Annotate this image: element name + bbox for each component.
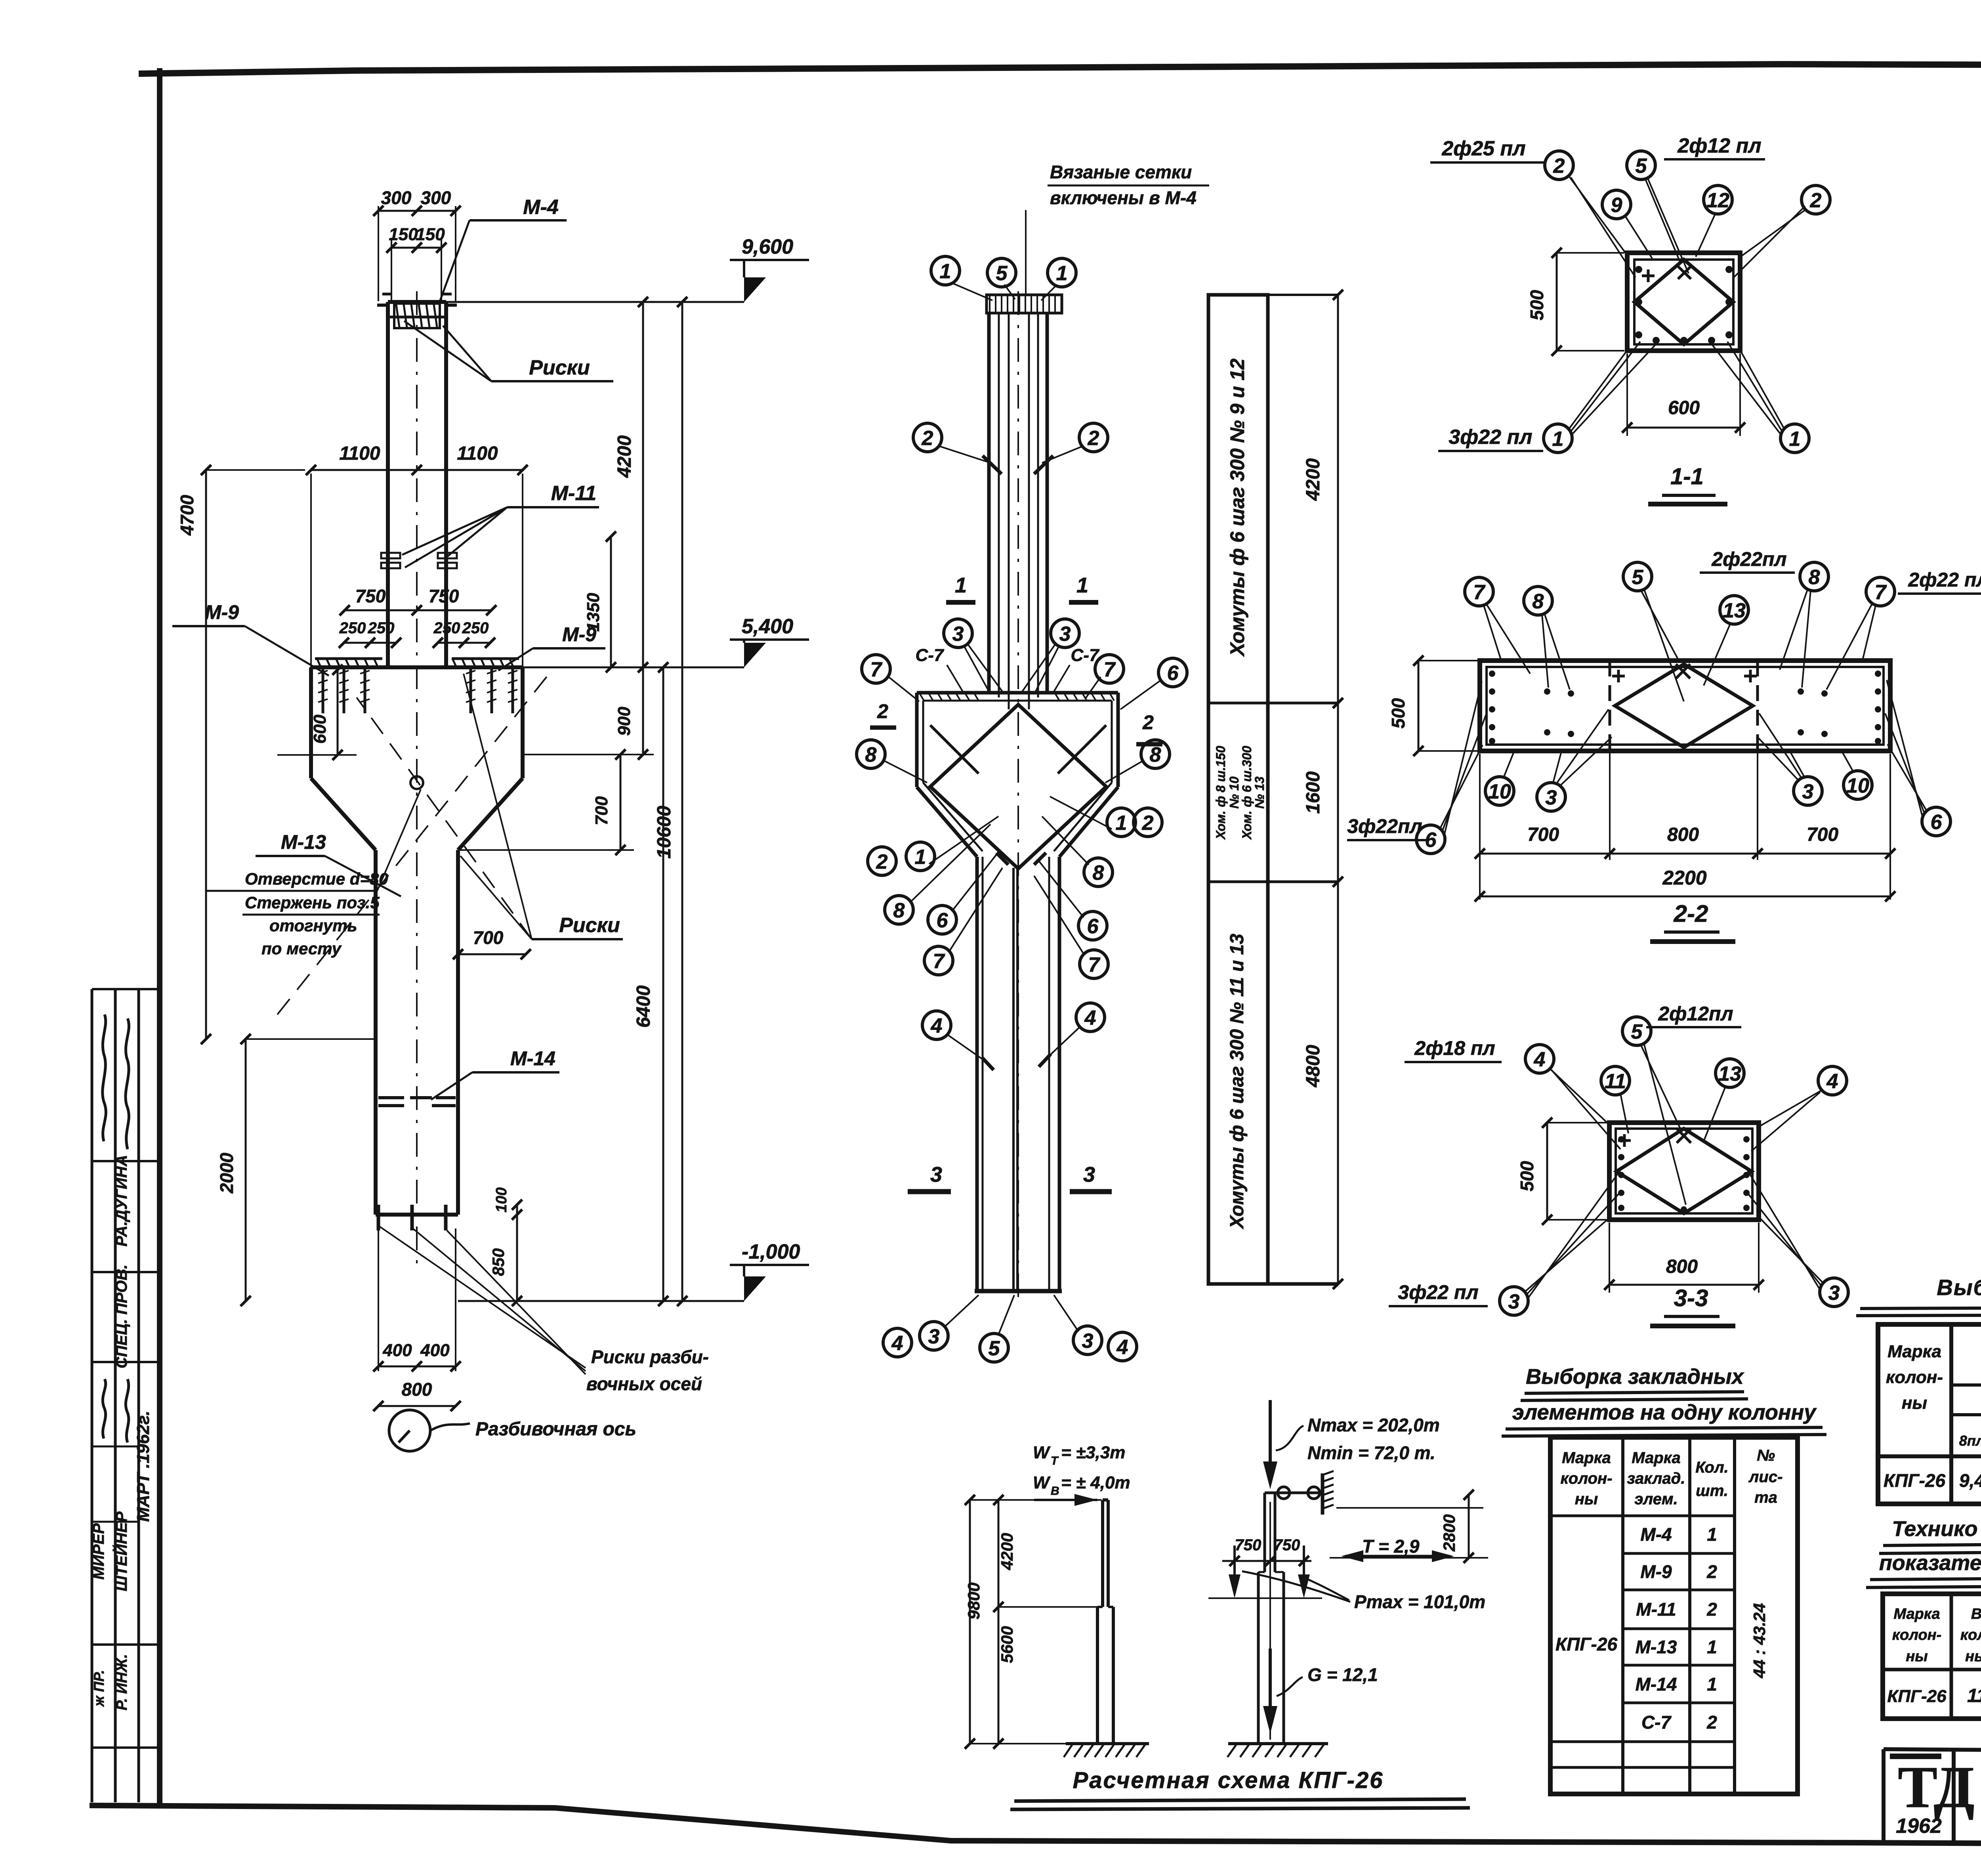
svg-text:1: 1 [1056,262,1068,285]
svg-text:Отверстие d=80: Отверстие d=80 [245,869,388,888]
left signature strip [90,989,160,1802]
svg-text:500: 500 [1527,290,1547,320]
svg-text:ны: ны [1575,1490,1598,1508]
section mark 3-3 [908,1163,1112,1192]
dimension 750 750 [340,586,496,615]
svg-text:4: 4 [1534,1048,1546,1071]
svg-text:4200: 4200 [1303,458,1324,501]
svg-text:13: 13 [1723,599,1746,622]
svg-text:М-13: М-13 [281,831,326,853]
svg-text:Риски: Риски [529,356,590,379]
svg-text:700: 700 [592,796,611,825]
embedded elements table grid [1550,1437,1798,1794]
svg-text:М-11: М-11 [1636,1599,1676,1620]
callout 6 7 right stack [1034,860,1108,978]
steel table headers [1886,1330,1981,1453]
svg-text:лис-: лис- [1748,1468,1783,1486]
svg-text:Стержень поз.5: Стержень поз.5 [245,893,380,912]
svg-text:300: 300 [381,187,412,208]
section 3-3 label [1650,1285,1735,1326]
svg-text:3: 3 [1828,1282,1840,1305]
callout 1 top-left [931,256,992,300]
reinforcement view label: vyazanye setki [1026,162,1209,295]
callout 7 right [1086,655,1124,698]
svg-text:2200: 2200 [1662,867,1706,889]
svg-text:800: 800 [1666,1256,1698,1277]
svg-text:Nmin = 72,0 т.: Nmin = 72,0 т. [1307,1442,1435,1463]
svg-text:8: 8 [1809,566,1820,589]
callout 1 top-right [1041,258,1076,300]
svg-text:Вязаные сетки: Вязаные сетки [1050,162,1192,182]
dim 10600 [654,297,687,1306]
svg-text:4: 4 [1084,1007,1096,1030]
callout 8 right [1105,740,1170,783]
section 2-2 callout 7 R [1826,577,1895,690]
calc schema 2800 dim [1330,1490,1488,1563]
svg-text:250: 250 [433,619,460,637]
svg-text:3ф22 пл: 3ф22 пл [1398,1281,1478,1303]
section 2-2 dim 2200 [1475,867,1895,902]
calc schema title [1010,1767,1470,1809]
TEP title [1866,1517,1981,1588]
dimension 250 250 left [339,619,401,648]
svg-text:10: 10 [1488,780,1511,803]
svg-text:М-11: М-11 [551,482,597,505]
svg-text:3: 3 [1083,1163,1095,1186]
svg-text:1962: 1962 [1896,1815,1942,1838]
svg-text:700: 700 [473,927,504,948]
svg-text:3: 3 [1546,786,1557,809]
label M-13 [256,831,401,896]
svg-text:Марка: Марка [1887,1342,1941,1361]
svg-text:= ±3,3т: = ±3,3т [1061,1443,1125,1462]
calc schema T force [1341,1536,1454,1562]
svg-text:1: 1 [1789,428,1801,451]
calc schema 750 750 and P forces [1208,1536,1485,1612]
svg-text:3ф22пл: 3ф22пл [1347,815,1422,837]
svg-text:2: 2 [877,700,888,722]
svg-text:Хом. ф 8 ш.150: Хом. ф 8 ш.150 [1214,746,1228,840]
callout 7 left [862,655,919,701]
dim 600 console [277,665,357,760]
svg-text:5: 5 [989,1337,1000,1360]
embedded elements table header [1561,1447,1783,1508]
callout 8 lower left [885,824,990,924]
reinforcement lower shaft [975,853,1062,1291]
svg-text:М-9: М-9 [205,601,239,623]
section 3-3 dim 800 [1604,1223,1764,1293]
callout 6 right [1120,658,1187,709]
svg-text:6: 6 [1087,915,1099,938]
svg-text:600: 600 [310,714,330,744]
svg-text:та: та [1754,1489,1777,1506]
label M-14 [431,1047,559,1100]
section 2-2 callout 8 L [1524,586,1570,690]
svg-text:2: 2 [1706,1561,1717,1582]
svg-text:7: 7 [933,950,945,973]
dim 100 / 850 bottom right [489,1187,522,1306]
steel table grid [1878,1324,1981,1504]
svg-text:600: 600 [1668,397,1700,418]
dimension 400 400 bottom [373,1228,461,1372]
svg-text:1-1: 1-1 [1670,464,1704,489]
section 1-1 callout 2 left [1545,151,1636,277]
svg-text:1: 1 [955,573,967,597]
section mark 2 right [1136,711,1162,744]
svg-text:44 : 43.24: 44 : 43.24 [1750,1603,1769,1678]
dim chain right: 4200 / 900 [614,297,648,760]
dim chain right: 1350 [584,531,616,672]
svg-text:РА.ДУГИНА: РА.ДУГИНА [113,1155,130,1246]
svg-text:4800: 4800 [1303,1045,1324,1087]
svg-text:100: 100 [493,1187,510,1212]
svg-text:4: 4 [891,1332,903,1355]
dimension 800 bottom [373,1379,461,1411]
embedded elements rows [1555,1524,1769,1733]
callout 5 top [987,258,1016,299]
section mark 2 left [870,700,896,728]
section 1-1 dim 600 [1622,353,1745,436]
svg-text:по месту: по месту [261,939,342,958]
svg-text:Марка: Марка [1562,1449,1611,1467]
elevation dimensions 150 150 [386,225,447,301]
svg-text:850: 850 [489,1248,508,1276]
embedded elements table title [1502,1365,1826,1436]
callout 6 7 left stack [924,852,1002,975]
svg-text:1: 1 [1116,812,1127,835]
svg-text:700: 700 [1527,824,1559,845]
section 3-3 label 3f22pl [1389,1281,1488,1306]
section 3-3 dim 500 [1517,1118,1607,1225]
svg-text:500: 500 [1388,698,1408,728]
callout 3 left [944,619,1002,694]
svg-text:2: 2 [1553,155,1565,178]
svg-text:9,600: 9,600 [742,235,793,258]
svg-text:1100: 1100 [457,443,498,464]
callout 4 left mid [922,1011,994,1070]
label Riski top [404,321,613,381]
svg-text:1: 1 [1707,1674,1717,1695]
TEP table header [1892,1606,1981,1665]
svg-text:250: 250 [462,619,489,637]
section 2-2 callout 3 L [1537,709,1612,811]
svg-text:250: 250 [368,619,395,637]
dimension 1100 1100 [306,443,528,667]
svg-text:3: 3 [930,1163,942,1186]
svg-text:С-7: С-7 [916,646,945,665]
svg-text:С-7: С-7 [1641,1712,1672,1733]
strip dim line 4200/1600/4800 [1303,290,1343,1289]
reinforcement console box [917,693,1118,857]
section 1-1 [1627,253,1740,351]
section 3-3 callout 3 R [1747,1170,1848,1307]
svg-text:Выборка закладных: Выборка закладных [1526,1365,1744,1389]
svg-text:3: 3 [1082,1330,1094,1353]
bottom callout 5 [980,1295,1014,1362]
svg-text:колон-: колон- [1561,1470,1613,1487]
svg-text:150: 150 [389,225,418,244]
svg-text:вочных осей: вочных осей [586,1374,702,1394]
svg-text:3: 3 [1059,623,1071,646]
svg-text:Марка: Марка [1893,1606,1940,1622]
section mark 1-1 [946,573,1098,602]
elevation level -1.000 [458,1240,809,1301]
section 2-2 callout 5 [1623,562,1684,701]
svg-text:2ф22 пл: 2ф22 пл [1908,569,1981,591]
svg-text:КПГ-26: КПГ-26 [1887,1687,1947,1706]
svg-text:W: W [1033,1443,1051,1462]
steel table data row [1884,1469,1981,1491]
svg-text:Кол.: Кол. [1695,1459,1729,1476]
svg-text:М-14: М-14 [1636,1674,1677,1695]
svg-text:2: 2 [1142,812,1154,835]
svg-text:2000: 2000 [216,1152,237,1194]
svg-text:колон-: колон- [1892,1627,1941,1643]
svg-text:6: 6 [1931,811,1943,834]
svg-text:300: 300 [421,187,451,208]
svg-text:3ф22 пл: 3ф22 пл [1449,426,1532,449]
svg-text:750: 750 [355,586,386,606]
svg-text:КПГ-26: КПГ-26 [1884,1470,1945,1491]
svg-text:МИРЕР: МИРЕР [90,1523,107,1580]
svg-text:1100: 1100 [339,443,380,464]
hole note text [206,789,421,958]
section 3-3 label 2f18pl [1405,1037,1502,1062]
svg-text:6: 6 [1425,829,1437,852]
TD logo [1890,1754,1975,1838]
dimension 250 250 right [433,619,495,648]
dimension 700 lower shaft [453,927,531,959]
svg-text:1: 1 [915,846,926,869]
svg-text:4: 4 [931,1014,943,1037]
svg-text:2800: 2800 [1440,1514,1458,1551]
steel table title [1856,1275,1981,1316]
label M-11 [402,482,599,567]
section 1-1 callout 5 [1627,151,1689,273]
section 2-2 label 3f22pl left [1347,815,1426,840]
section 1-1 callout 12 [1696,185,1732,257]
svg-text:9,4: 9,4 [1959,1470,1981,1491]
stirrup schedule strip [1208,295,1338,1284]
svg-text:заклад.: заклад. [1627,1470,1685,1487]
svg-text:2: 2 [1706,1599,1717,1620]
svg-text:G = 12,1: G = 12,1 [1307,1664,1378,1685]
svg-text:3: 3 [1802,780,1814,803]
elevation top dimensions 300 300 [373,187,461,301]
dim 4700 [177,465,305,1044]
section 3-3 callout 4 R [1751,1066,1847,1151]
svg-text:ны: ны [1902,1393,1927,1413]
svg-text:3-3: 3-3 [1674,1285,1708,1311]
svg-text:800: 800 [402,1379,432,1400]
svg-text:800: 800 [1667,824,1699,845]
calc schema G force [1263,1649,1378,1734]
section 2-2 callout 10 L [1485,753,1514,805]
reinforcement cage top cap [987,295,1062,313]
svg-text:6: 6 [937,909,949,932]
svg-text:Pmax = 101,0т: Pmax = 101,0т [1354,1591,1485,1612]
svg-text:5600: 5600 [998,1626,1016,1663]
section 1-1 callout 2 right [1734,185,1830,277]
svg-text:5: 5 [1632,566,1644,589]
callout 8 left [857,740,927,783]
section 2-2 callout 10 R [1842,752,1872,799]
bottom callouts 3 4 [1054,1295,1137,1361]
callout 4 right mid [1039,1003,1105,1067]
svg-text:М-4: М-4 [1640,1524,1672,1545]
svg-text:элементов на одну колонну: элементов на одну колонну [1512,1400,1817,1424]
calc schema top support [1275,1471,1334,1515]
callout 1 2 below console right [1050,797,1162,837]
svg-text:М-14: М-14 [510,1047,555,1070]
callout 8 lower right [1042,816,1113,886]
svg-text:Риски: Риски [559,914,620,937]
svg-text:5: 5 [1631,1020,1643,1043]
svg-text:М-9: М-9 [1640,1561,1672,1582]
svg-text:ШТЕЙНЕР: ШТЕЙНЕР [112,1511,130,1591]
svg-text:9800: 9800 [964,1582,983,1619]
svg-text:Вес: Вес [1971,1606,1981,1622]
callout 2 left [913,423,1002,474]
svg-text:10: 10 [1846,774,1869,797]
svg-text:№: № [1757,1447,1775,1464]
callout 3 right [1022,619,1079,694]
svg-text:9: 9 [1611,194,1622,217]
reinforcement upper shaft bars [989,291,1047,1300]
svg-text:М-4: М-4 [523,196,559,219]
section 1-1 callout 1 right [1712,342,1809,453]
svg-text:1: 1 [1707,1637,1717,1657]
svg-text:1: 1 [1707,1524,1717,1545]
svg-text:2ф18 пл: 2ф18 пл [1414,1037,1495,1059]
svg-text:1350: 1350 [584,593,603,632]
svg-text:W: W [1033,1473,1051,1492]
label M-9 right [498,623,605,671]
svg-text:10600: 10600 [654,806,675,859]
labels C-7 [916,646,1100,692]
section 3-3 [1609,1123,1759,1220]
svg-text:400: 400 [382,1341,412,1360]
svg-text:4200: 4200 [998,1533,1016,1570]
svg-text:4: 4 [1826,1070,1838,1093]
svg-text:элем.: элем. [1634,1490,1678,1508]
svg-text:Р. ИНЖ.: Р. ИНЖ. [114,1654,130,1710]
svg-text:750: 750 [1274,1536,1300,1554]
svg-text:750: 750 [429,586,459,606]
svg-text:5: 5 [996,262,1008,285]
section 1-1 label 3f22pl [1438,426,1543,451]
svg-text:2-2: 2-2 [1674,900,1708,927]
section 2-2 callout 8 R [1780,562,1828,688]
svg-text:7: 7 [1473,581,1486,604]
svg-text:7: 7 [1088,953,1101,976]
elevation level 5.400 [523,615,809,667]
section 3-3 callout 13 [1704,1059,1744,1141]
svg-text:2: 2 [1142,711,1154,734]
razbivochnaya os [389,1410,636,1451]
svg-text:Выборка стали на одну ко: Выборка стали на одну колонну (кг) [1937,1275,1981,1300]
svg-text:400: 400 [420,1341,450,1360]
svg-text:включены в М-4: включены в М-4 [1050,187,1197,208]
svg-text:4200: 4200 [614,435,635,478]
dim 2000 [216,1034,376,1306]
svg-text:250: 250 [339,619,366,637]
calc schema left dims [964,1495,1101,1749]
svg-text:СПЕЦ. ПРОВ.: СПЕЦ. ПРОВ. [113,1265,130,1368]
svg-text:шт.: шт. [1696,1482,1728,1500]
bottom callouts 4 3 [883,1295,979,1357]
svg-text:8: 8 [1150,743,1161,766]
svg-text:11,8: 11,8 [1967,1685,1981,1706]
section 2-2 callout 3 R [1758,713,1822,805]
svg-text:2: 2 [1706,1712,1717,1733]
calc schema right column [1227,1493,1328,1757]
section 2-2 [1480,661,1890,751]
svg-text:ны,т: ны,т [1965,1648,1981,1665]
svg-text:900: 900 [615,707,634,736]
svg-text:8: 8 [1533,590,1544,613]
section 2-2 callout 7 L [1465,577,1530,674]
svg-text:ны: ны [1906,1648,1928,1665]
svg-text:2: 2 [876,850,888,873]
section 2-2 dims 700 800 700 [1475,751,1895,900]
svg-text:7: 7 [1875,581,1887,604]
svg-text:5,400: 5,400 [742,615,793,638]
svg-text:ж ПР.: ж ПР. [91,1670,107,1707]
svg-text:3: 3 [1508,1290,1520,1313]
section 2-2 label [1650,900,1735,942]
section 2-2 label 2f22pl top [1700,548,1795,573]
svg-text:Расчетная схема КПГ-26: Расчетная схема КПГ-26 [1073,1767,1384,1793]
svg-text:750: 750 [1235,1536,1262,1554]
column elevation outline [311,291,523,1264]
svg-text:= ± 4,0т: = ± 4,0т [1061,1473,1130,1492]
section 2-2 callout 13 [1704,596,1748,686]
svg-text:Т: Т [1051,1454,1059,1467]
svg-text:2ф25 пл: 2ф25 пл [1441,137,1525,160]
callout 2 1 below console left [868,816,998,875]
section 3-3 callout 11 [1601,1066,1630,1133]
svg-text:4700: 4700 [177,495,197,536]
svg-text:2: 2 [922,427,933,450]
svg-text:4: 4 [1116,1336,1128,1359]
svg-text:МАРТ .1962г.: МАРТ .1962г. [134,1411,153,1522]
svg-text:11: 11 [1605,1070,1626,1093]
svg-text:Хом. ф 6 ш.300: Хом. ф 6 ш.300 [1240,746,1254,840]
svg-text:Хомуты ф 6 шаг 300 № 9 и 12: Хомуты ф 6 шаг 300 № 9 и 12 [1226,358,1248,657]
section 2-2 label 2f22pl right [1898,569,1981,594]
svg-text:6400: 6400 [633,985,654,1028]
svg-text:1: 1 [1552,428,1564,451]
svg-text:3: 3 [952,623,964,646]
svg-text:5: 5 [1636,155,1647,178]
svg-text:-1,000: -1,000 [742,1240,800,1263]
svg-text:2: 2 [1088,427,1099,450]
svg-text:В: В [1051,1484,1059,1498]
svg-text:8: 8 [1093,862,1104,885]
svg-text:3: 3 [928,1325,940,1348]
svg-text:2ф12пл: 2ф12пл [1658,1003,1733,1025]
elevation level 9.600 [446,235,809,302]
label Riski lower [277,672,623,1014]
svg-text:Хомуты ф 6 шаг 300 № 11 и 13: Хомуты ф 6 шаг 300 № 11 и 13 [1227,934,1248,1230]
svg-text:1: 1 [1076,573,1088,597]
svg-text:Разбивочная ось: Разбивочная ось [475,1419,636,1440]
svg-text:700: 700 [1807,824,1838,845]
TEP table grid [1883,1594,1981,1719]
svg-text:показатели на одну колонну: показатели на одну колонну [1879,1551,1981,1575]
svg-text:1600: 1600 [1303,771,1324,814]
